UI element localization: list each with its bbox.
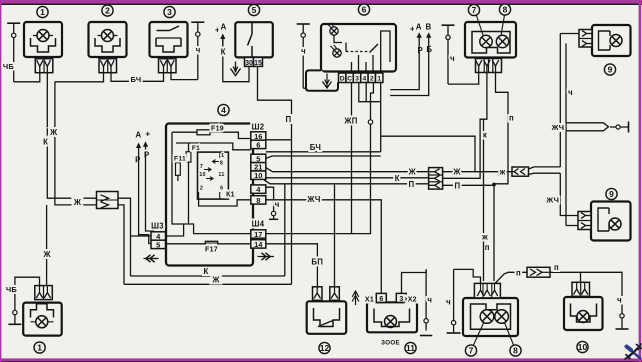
svg-text:К: К (395, 174, 400, 183)
svg-text:ч: ч (617, 296, 622, 305)
wire: comp11 terminal3 to ground (402, 269, 427, 293)
unit5 terminal 30 (245, 57, 254, 66)
unit11 terminal 6 (X1) (376, 293, 386, 302)
svg-text:Ж: Ж (73, 198, 82, 207)
PP inline connector 2 (bottom) (527, 267, 550, 277)
page border right (639, 0, 642, 362)
K1 internal pins (219, 152, 221, 158)
unit6 bottom-left tab with ground (306, 70, 338, 90)
Sh3 pin 5 (151, 240, 166, 248)
svg-text:К: К (221, 48, 226, 57)
wire: y233 line from Sh4 pin17 to comp6 terminal2 riser (266, 232, 371, 234)
connector of unit 1 (35, 59, 53, 73)
svg-text:12: 12 (320, 343, 330, 353)
wire: comp1 right pin down (K line) (47, 73, 96, 199)
unit78top lamp 8 (496, 35, 508, 47)
headlamp unit 7/8 top (465, 22, 516, 58)
wire: comp2 left pin to zh line (55, 73, 104, 82)
ground ch right of comp10 (621, 297, 623, 314)
svg-text:6: 6 (256, 140, 260, 149)
svg-text:2: 2 (370, 76, 374, 83)
wire: A/B arrows right of comp6 (418, 34, 420, 44)
svg-text:ч: ч (568, 88, 573, 97)
wire: comp78bot pin1 to left ground (454, 269, 481, 284)
wire: K line from arrow to terminal 30 of comp5 (223, 37, 249, 82)
loom cone east at y127 (566, 123, 609, 131)
fuse F1 (188, 143, 190, 224)
svg-text:11: 11 (406, 343, 415, 353)
svg-text:ч: ч (450, 54, 455, 63)
svg-text:П: П (286, 115, 292, 124)
svg-text:11: 11 (218, 172, 224, 178)
svg-text:6: 6 (220, 186, 223, 192)
Sh3 pin 4 (151, 232, 166, 240)
wire: vertical from pin16 corner down to Zh bottom line (291, 140, 293, 284)
fuse F17 (205, 241, 217, 246)
svg-text:F11: F11 (174, 156, 186, 163)
wire: K/Zh vertical comp78top pin2 to comp78bot pin2 (484, 73, 487, 282)
side lamp unit 10 (564, 297, 603, 330)
svg-text:ЖЧ: ЖЧ (551, 123, 565, 132)
svg-text:ч: ч (275, 200, 280, 209)
svg-text:15: 15 (254, 60, 262, 67)
svg-text:ЖЧ: ЖЧ (545, 196, 559, 205)
wire: connector top pin to Sh3 pin4 and down to K line (118, 198, 131, 276)
svg-text:F17: F17 (205, 247, 218, 254)
svg-text:П: П (455, 181, 461, 190)
fuse F19 (197, 130, 210, 135)
wire: BCh from pin6 east then up to comp6 (266, 151, 381, 153)
svg-text:8: 8 (220, 161, 223, 167)
wire: K east of 3row connector rises to comp78top pin2 (443, 119, 484, 178)
relay unit 5 (235, 22, 272, 57)
unit78top internal housing (472, 32, 510, 54)
front direction symbol near unit 11 (355, 293, 357, 306)
svg-text:ЗООЕ: ЗООЕ (381, 340, 400, 347)
wire: K line pin10 to 3-row connector row2 (266, 177, 429, 179)
wire: K bottom horizontal (131, 275, 285, 277)
svg-text:8: 8 (513, 345, 518, 355)
svg-text:Ж: Ж (49, 128, 58, 137)
svg-text:4: 4 (221, 105, 226, 115)
leaders 7 and 8 (477, 16, 484, 37)
svg-text:ч: ч (427, 296, 432, 305)
Sh4 pin 14 (251, 240, 266, 248)
svg-text:п: п (485, 243, 490, 252)
wires: A+ P arrows to Sh3 (138, 145, 140, 155)
svg-text:1: 1 (221, 153, 224, 159)
ground Ch left of comp78 top (442, 24, 455, 26)
side lamp unit 9 bottom (591, 202, 631, 241)
svg-text:8: 8 (503, 4, 508, 14)
svg-text:К: К (203, 267, 208, 276)
lamp unit 1 (top left) (24, 22, 62, 57)
wire: Ch ground line left of comp6 (297, 23, 310, 25)
svg-text:3: 3 (167, 7, 172, 17)
svg-text:ж: ж (481, 233, 488, 242)
wire: comp6 terminals 3,4,1 mini bus (359, 83, 381, 102)
Sh2 pin 21 (251, 163, 266, 171)
svg-text:БЧ: БЧ (131, 75, 142, 84)
lamp unit 2 (89, 22, 127, 57)
svg-text:10: 10 (578, 342, 588, 352)
connector of unit 2 (99, 59, 117, 73)
wire: pin21 line east becomes Zh to 3-row connector row1 (266, 168, 429, 172)
wire: Sh4 pin14 east then down as BP to comp12 left pin (266, 244, 318, 287)
ground ch left of comp78 bottom (453, 269, 455, 320)
fuse box unit 4 outline (166, 124, 253, 266)
wire: BCh vertical riser at x381 (380, 102, 382, 152)
fuse F11 (177, 155, 179, 181)
svg-text:ч: ч (446, 298, 451, 307)
unit6 internals: indicator lamp with rays 2 (333, 49, 341, 57)
Sh4 pin 17 (251, 230, 266, 238)
svg-text:ЖЧ: ЖЧ (306, 195, 320, 204)
svg-text:C: C (347, 76, 352, 83)
ground ch below pin8 junction (273, 200, 275, 212)
svg-text:10: 10 (254, 171, 262, 180)
ground Ch between comp3 and comp5 (191, 21, 204, 23)
svg-text:5: 5 (156, 240, 160, 249)
wire: P east of 3row connector to junction dot (443, 184, 495, 186)
svg-text:к: к (483, 131, 487, 140)
side lamp unit 9 top (592, 25, 631, 56)
connector of unit 3 (159, 59, 177, 73)
svg-text:Ш4: Ш4 (252, 220, 265, 229)
switch unit 3 (150, 22, 188, 57)
3 row connector (middle) (429, 168, 443, 190)
wire: comp78top pin1 to ground (448, 73, 479, 85)
unit6 internals: indicator lamp with rays 1 (330, 27, 338, 35)
svg-text:А: А (416, 23, 422, 32)
svg-text:А: А (135, 131, 141, 140)
wire: P line from pin10 corner to PP connector 1 (264, 180, 428, 184)
svg-text:ЧБ: ЧБ (6, 285, 18, 294)
svg-text:БП: БП (311, 258, 323, 267)
unit6 terminal row D C 3 4 2 1 (339, 73, 346, 83)
wire: V1 riser P line to K bottom line (284, 184, 286, 276)
wire: flare from 2pin connector to right risers (529, 167, 561, 175)
svg-text:Ж: Ж (211, 275, 220, 284)
svg-text:1: 1 (377, 76, 381, 83)
wire: pin4 jog to ZhCh (266, 187, 274, 200)
svg-text:2: 2 (200, 186, 203, 192)
svg-text:7: 7 (200, 164, 203, 170)
arrow +A with K label (comp5 feed) (222, 36, 224, 46)
svg-text:D: D (340, 76, 345, 83)
2pin inline connector (Zh, middle right) (512, 167, 529, 176)
svg-text:+: + (410, 24, 415, 34)
ground ChB top left (7, 22, 20, 24)
2 pin connector (left, Zh/K) (97, 192, 119, 209)
unit6 ground symbol (326, 74, 328, 88)
wire: riser x560 comp9top upper pin down to flare (559, 34, 561, 167)
wire: comp3 right pin to Ch ground (171, 73, 198, 80)
svg-text:1: 1 (37, 342, 42, 352)
svg-text:5: 5 (252, 5, 257, 15)
wire: P tee down to comp12 right pin (334, 184, 336, 287)
svg-text:+: + (145, 129, 150, 139)
page border top magenta bar (0, 0, 642, 3)
box4 internal rail and F19 feed (172, 132, 251, 138)
svg-text:Р: Р (417, 46, 423, 55)
wire: Zh bottom horizontal (124, 283, 292, 285)
page border bottom (0, 358, 642, 361)
svg-text:8: 8 (256, 196, 260, 205)
svg-text:ч: ч (301, 47, 306, 56)
svg-text:п: п (516, 268, 521, 277)
svg-text:К1: К1 (226, 192, 235, 199)
svg-text:Ш3: Ш3 (151, 222, 164, 231)
relay K1 box (198, 152, 229, 199)
wire: PP connector2 east to comp10 and right ground (550, 272, 622, 297)
direction arrow left outside box4 (144, 258, 159, 260)
svg-text:4: 4 (363, 76, 367, 83)
svg-text:17: 17 (254, 230, 262, 239)
wire: comp1bottom ground ChB (15, 277, 40, 310)
svg-text:7: 7 (472, 5, 477, 15)
ground symbol below comp5 (arrow into body) (235, 62, 237, 73)
wire: P line from terminal 15 of comp5 down to Sh2 pin16 (258, 67, 292, 140)
Sh2 pin 16 (251, 132, 266, 140)
wire: zh vertical line (55, 82, 103, 205)
Sh2 pin 6 (251, 140, 266, 148)
svg-text:7: 7 (469, 345, 474, 355)
wire: comp6 terminal 2 down through node to y233 line (371, 83, 374, 120)
Sh2 pin 10 (251, 171, 266, 179)
svg-text:п: п (509, 114, 514, 123)
svg-text:30: 30 (245, 60, 253, 67)
svg-text:Р: Р (135, 156, 141, 165)
svg-text:Ж: Ж (43, 250, 52, 259)
svg-text:2: 2 (105, 5, 110, 15)
wire: comp2 right pin BCh wire to comp3 (111, 73, 164, 82)
box4 feed line to pin6 with fuse F1 (176, 143, 251, 150)
svg-text:ЧБ: ЧБ (3, 62, 15, 71)
F17 line from Sh3 pin5 to pin 14 (166, 243, 251, 245)
Sh2 pin 5 (251, 154, 266, 162)
wire: connector bottom pin down to Zh line (118, 205, 124, 284)
wire: comp9top upper pin west (560, 33, 579, 35)
wire: comp1 left pin to ground ЧБ (14, 73, 40, 82)
turn signal unit 6 (321, 24, 396, 72)
unit5 terminal 15 (254, 57, 263, 66)
svg-text:6: 6 (379, 296, 383, 303)
svg-text:п: п (554, 263, 559, 272)
svg-text:3: 3 (355, 76, 359, 83)
svg-text:F1: F1 (192, 145, 200, 152)
wire: Zh east of 3row connector to 2pin connector (443, 171, 513, 173)
unit9top connector (579, 30, 592, 48)
svg-text:ж: ж (499, 168, 506, 177)
svg-text:А: А (220, 23, 226, 32)
svg-text:9: 9 (608, 64, 613, 74)
wire: ZhCh line from pin8 east then down to comp11 (266, 200, 382, 294)
wire: P junction up to comp78top pin3 via x508 (494, 73, 508, 184)
svg-text:В: В (426, 23, 432, 32)
lamp unit 1 bottom (license plate lamp) (23, 303, 62, 336)
switch unit 12 (brake light switch) (307, 301, 347, 334)
unit6 internals: contacts and dashed link (334, 35, 381, 71)
svg-text:1: 1 (40, 7, 45, 17)
wire: comp6 terminal C down (ZhP) to y233 line (351, 83, 353, 234)
unit9bottom connector (578, 212, 591, 230)
wire: pin5 line east (266, 156, 381, 159)
svg-text:К: К (43, 138, 48, 147)
svg-text:X2: X2 (408, 297, 417, 304)
svg-text:14: 14 (254, 240, 263, 249)
svg-text:БЧ: БЧ (310, 143, 321, 152)
Sh2 pin 8 (251, 196, 266, 204)
page border left (0, 0, 1, 362)
unit1bottom connector (pins up) (35, 286, 53, 300)
svg-text:F19: F19 (211, 126, 224, 133)
wire from Sh3 pin4 internal (166, 224, 184, 236)
unit78bottom connector (pins up) (474, 283, 500, 298)
svg-text:9: 9 (609, 189, 614, 199)
unit10 connector (pins up) (572, 282, 590, 296)
wire: zh tee down to comp1 bottom (46, 205, 48, 286)
svg-text:+: + (215, 25, 220, 35)
svg-text:Ж: Ж (452, 168, 461, 177)
svg-text:ЖП: ЖП (343, 117, 357, 126)
Sh2 pin 4 (251, 185, 266, 193)
svg-text:6: 6 (362, 4, 367, 14)
svg-text:Ш2: Ш2 (252, 123, 265, 132)
svg-text:3: 3 (399, 296, 403, 303)
headlamp unit 7/8 bottom (463, 298, 518, 336)
unit5 internal switch (251, 22, 253, 34)
svg-text:П: П (409, 180, 415, 189)
unit11 terminal 3 (X2) (396, 293, 406, 302)
direction arrow right outside box4 (258, 256, 275, 258)
unit12 connector pins (up) (313, 287, 323, 301)
svg-text:Ж: Ж (408, 168, 417, 177)
svg-text:10: 10 (199, 172, 206, 178)
watermark crossed tools icon (625, 344, 642, 359)
svg-text:ч: ч (196, 46, 201, 55)
K1 output staircase to pin8 (199, 199, 251, 206)
svg-text:X1: X1 (365, 297, 374, 304)
repeater lamp unit 11 (367, 302, 417, 332)
unit78top lamp 7 (480, 35, 492, 47)
wire: x566 vertical comp9top lower pin down to comp9bottom (566, 44, 578, 226)
unit78top connector 3pin (476, 59, 502, 73)
wire: comp78bot pin3 east as P to PP connector2 (495, 272, 528, 284)
wire: P junction down to comp78bot pin3 (493, 185, 495, 282)
wire: riser x560 down to comp9 bottom upper pin (560, 173, 578, 215)
wire: BCh branch east at y136 to Zh connector area (381, 136, 475, 172)
